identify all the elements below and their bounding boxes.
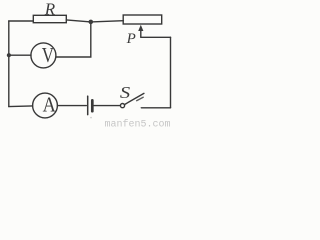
- wire node to rheostat: [91, 21, 124, 22]
- wire battery to switch: [94, 105, 121, 107]
- wire left rail: [8, 21, 10, 107]
- battery short plate: [91, 100, 94, 111]
- rheostat slider arrow shaft: [140, 30, 142, 38]
- svg-text:S: S: [120, 83, 131, 102]
- svg-text:R: R: [44, 0, 56, 19]
- wire ammeter to battery: [58, 105, 87, 107]
- wire bottom-left: [9, 105, 33, 108]
- svg-text:manfen5.com: manfen5.com: [105, 119, 171, 129]
- rheostat P box: [123, 15, 162, 24]
- wire R to node: [66, 20, 91, 22]
- switch S blade: [124, 93, 143, 104]
- node junction dot left: [7, 53, 11, 57]
- switch S pivot: [120, 104, 124, 108]
- svg-text:P: P: [126, 31, 136, 47]
- svg-text:V: V: [42, 43, 54, 67]
- wire slider to right rail: [141, 36, 171, 38]
- switch contact ghost stroke: [137, 97, 144, 101]
- wire right rail: [170, 37, 172, 108]
- wire voltmeter right up to node: [56, 22, 91, 57]
- wire node to voltmeter left: [9, 54, 31, 56]
- battery long plate: [87, 96, 89, 115]
- wire bottom-right: [141, 107, 170, 109]
- scan speckle near battery: [90, 117, 92, 119]
- svg-text:A: A: [43, 93, 57, 117]
- node junction dot top: [89, 20, 94, 25]
- voltmeter V circle: [31, 43, 56, 68]
- ammeter A circle: [33, 93, 58, 118]
- resistor R: [33, 15, 66, 22]
- wire top-left: [9, 20, 34, 22]
- rheostat arrowhead: [138, 25, 143, 31]
